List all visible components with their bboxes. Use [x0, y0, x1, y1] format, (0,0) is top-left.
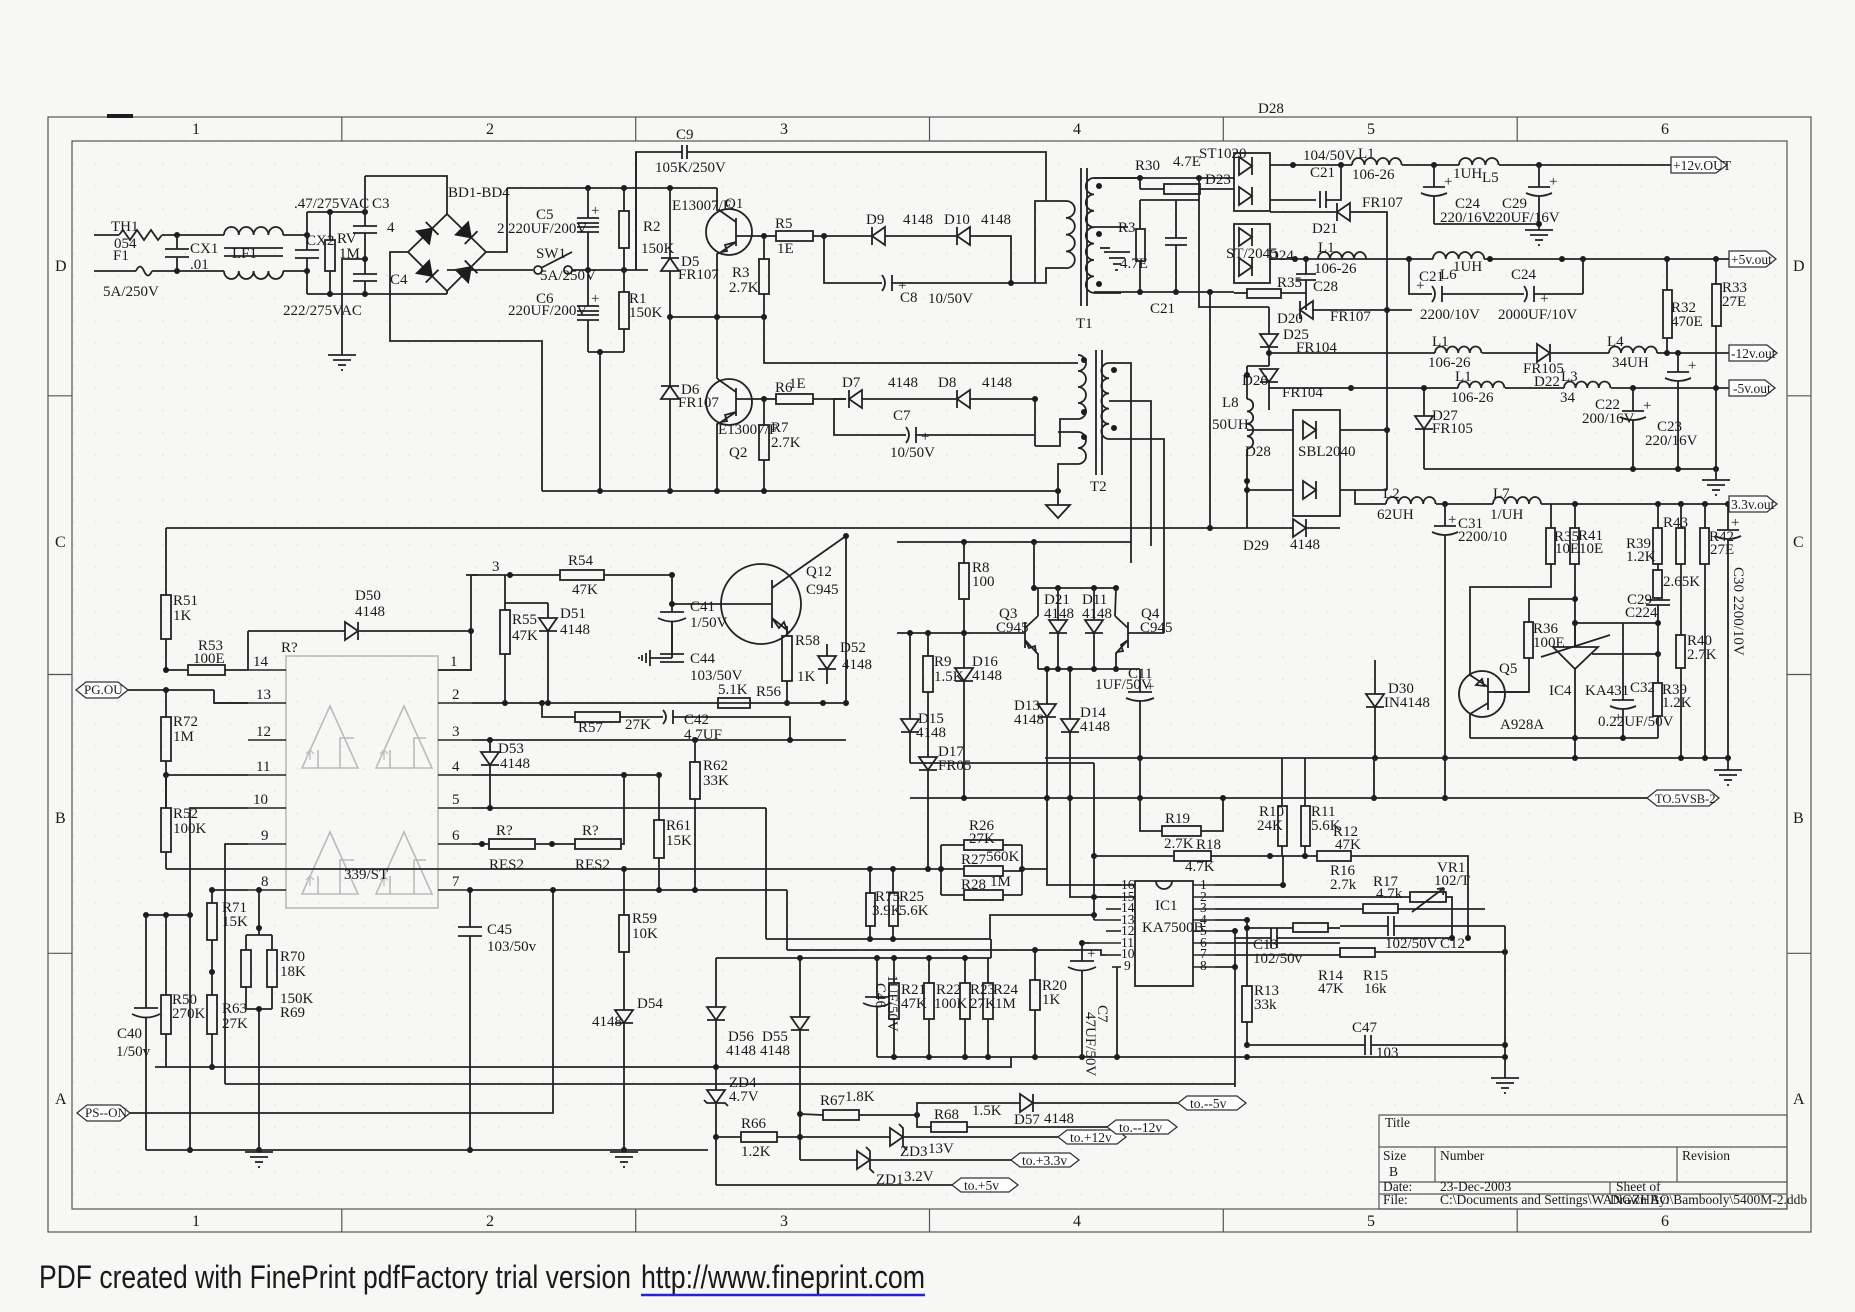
T2 secondary — [1101, 363, 1109, 439]
R8 top link — [963, 542, 965, 546]
svg-text:102/50V: 102/50V — [1385, 936, 1438, 952]
resistor R32 470E — [1663, 290, 1672, 338]
svg-text:R72: R72 — [173, 714, 198, 730]
resistor R39b 1.2K — [1653, 683, 1662, 716]
svg-text:C4: C4 — [390, 272, 408, 288]
svg-text:IC4: IC4 — [1549, 683, 1572, 699]
diode D10 4148 — [957, 227, 970, 245]
svg-text:R68: R68 — [934, 1107, 959, 1123]
capacitor C6 — [587, 270, 589, 306]
svg-text:-5v.out: -5v.out — [1733, 381, 1771, 396]
svg-text:105K/250V: 105K/250V — [655, 160, 726, 176]
R20 1K — [1030, 980, 1040, 1010]
svg-text:FR107: FR107 — [678, 395, 719, 411]
R22 100K — [924, 983, 934, 1019]
resistor R8 100 — [959, 563, 969, 599]
svg-text:1K: 1K — [173, 608, 192, 624]
resistor R54 47K — [478, 574, 560, 576]
transformer T1 primary — [1035, 201, 1066, 283]
svg-text:C: C — [55, 534, 66, 551]
opamp B — [376, 706, 432, 768]
resistor R7 — [759, 425, 769, 460]
svg-text:Q12: Q12 — [806, 564, 832, 580]
capacitor C31 2200/10 — [1444, 504, 1446, 526]
diode D55 4148 — [799, 958, 801, 1017]
svg-text:1: 1 — [192, 121, 200, 138]
wire live in — [94, 234, 119, 236]
svg-text:222/275VAC: 222/275VAC — [283, 303, 362, 319]
R11 5.6K — [1301, 806, 1310, 846]
svg-text:1/50V: 1/50V — [690, 615, 728, 631]
svg-text:L5: L5 — [1482, 170, 1499, 186]
primary ground triangle — [1046, 491, 1070, 518]
3.3 bottom line — [1045, 757, 1728, 759]
top bus 958 — [716, 957, 991, 959]
resistor R62 33K — [690, 762, 700, 799]
svg-text:47K: 47K — [1335, 837, 1361, 853]
vertical 1199 to D25 — [1199, 178, 1269, 307]
zener ZD3 13V — [890, 1124, 907, 1150]
svg-text:L8: L8 — [1222, 395, 1239, 411]
svg-text:R3: R3 — [732, 265, 750, 281]
svg-text:L3: L3 — [1561, 369, 1578, 385]
capacitor C40 1/50v — [145, 915, 147, 1008]
svg-text:2000UF/10V: 2000UF/10V — [1498, 307, 1577, 323]
svg-text:IN4148: IN4148 — [1384, 695, 1430, 711]
svg-text:to.+12v: to.+12v — [1070, 1130, 1112, 1145]
column numbers top — [55, 121, 1805, 1230]
svg-text:7: 7 — [452, 874, 460, 890]
svg-text:15K: 15K — [222, 914, 248, 930]
bus to T2 aux — [166, 527, 1247, 529]
svg-text:C3: C3 — [372, 196, 390, 212]
ground R69 — [245, 1152, 273, 1167]
svg-text:2: 2 — [497, 221, 505, 237]
bottom node — [588, 351, 624, 353]
resistor R5 — [761, 233, 767, 239]
svg-text:10/50V: 10/50V — [890, 445, 935, 461]
capacitor C42 4.7UF — [663, 710, 666, 724]
svg-text:106-26: 106-26 — [1314, 261, 1357, 277]
svg-text:100: 100 — [972, 574, 995, 590]
R67 1.8K — [823, 1110, 859, 1120]
pin3 wire — [1215, 908, 1363, 910]
svg-text:.01: .01 — [190, 257, 209, 273]
svg-text:10/50V: 10/50V — [928, 291, 973, 307]
pin3 row — [472, 739, 846, 741]
svg-text:B: B — [55, 810, 66, 827]
svg-text:LF1: LF1 — [232, 246, 257, 262]
bus 1084 — [225, 1083, 1235, 1085]
svg-text:2.7K: 2.7K — [729, 280, 759, 296]
svg-text:200/16V: 200/16V — [1582, 411, 1635, 427]
svg-text:D21: D21 — [1312, 221, 1338, 237]
svg-text:R55: R55 — [512, 612, 537, 628]
svg-text:11: 11 — [256, 759, 270, 775]
svg-text:A928A: A928A — [1500, 717, 1544, 733]
capacitor C24b 2000UF/10V — [1524, 286, 1527, 302]
capacitor C30 2200/10V — [1727, 504, 1729, 530]
svg-text:SBL2040: SBL2040 — [1298, 444, 1356, 460]
Q12 collector top rail — [845, 536, 847, 703]
svg-text:2: 2 — [452, 687, 460, 703]
svg-text:220UF/200V: 220UF/200V — [508, 221, 587, 237]
svg-text:C21: C21 — [1310, 165, 1335, 181]
svg-text:T1: T1 — [1076, 316, 1093, 332]
wire pin7col — [467, 887, 473, 893]
svg-text:L1: L1 — [1432, 334, 1449, 350]
svg-text:Drawn By:: Drawn By: — [1610, 1192, 1670, 1207]
svg-text:4: 4 — [387, 220, 395, 236]
svg-text:4148: 4148 — [1014, 712, 1044, 728]
svg-text:+: + — [1448, 512, 1456, 528]
svg-text:CX1: CX1 — [190, 241, 218, 257]
svg-text:R62: R62 — [703, 758, 728, 774]
svg-text:R30: R30 — [1135, 158, 1160, 174]
svg-text:270K: 270K — [172, 1006, 206, 1022]
opamp C — [302, 832, 358, 894]
svg-text:4.7k: 4.7k — [1376, 886, 1403, 902]
pin stubs right 1..8 — [1193, 885, 1215, 967]
svg-text:File:: File: — [1383, 1192, 1408, 1207]
svg-text:1K: 1K — [1042, 992, 1061, 1008]
svg-text:4148: 4148 — [355, 604, 385, 620]
R26/27/28 side rails — [941, 845, 964, 895]
pin11 row to column — [165, 775, 167, 808]
svg-text:470E: 470E — [1671, 314, 1703, 330]
svg-text:R5: R5 — [775, 216, 793, 232]
svg-text:2.7k: 2.7k — [1330, 877, 1357, 893]
svg-text:C21: C21 — [1150, 301, 1175, 317]
Q5 collector line — [1470, 737, 1658, 739]
capacitor C24a — [1433, 165, 1435, 187]
diode D11 4148 — [1093, 588, 1095, 620]
svg-text:6: 6 — [452, 828, 460, 844]
pin4 row — [472, 774, 624, 776]
svg-text:4148: 4148 — [972, 668, 1002, 684]
pin stubs right 1..7 — [438, 670, 472, 890]
transistor Q2 E13007/F — [706, 379, 752, 425]
bus 1067 — [155, 1057, 1011, 1067]
pin11 bus — [1082, 942, 1090, 944]
svg-text:104/50V: 104/50V — [1303, 148, 1356, 164]
svg-text:C28: C28 — [1313, 279, 1338, 295]
svg-text:13V: 13V — [928, 1141, 954, 1157]
svg-text:27K: 27K — [625, 717, 651, 733]
svg-text:F1: F1 — [113, 248, 129, 264]
svg-text:Title: Title — [1385, 1115, 1410, 1130]
svg-text:ST1020: ST1020 — [1199, 146, 1247, 162]
faint grid dots — [0, 0, 1, 1]
column R42 27E — [1704, 504, 1706, 528]
svg-text:C45: C45 — [487, 922, 512, 938]
diode D53 4148 — [489, 740, 491, 752]
small ground C44 — [639, 650, 650, 666]
svg-text:150K: 150K — [629, 305, 663, 321]
R13 33k — [1242, 986, 1252, 1022]
svg-text:+: + — [591, 291, 599, 307]
transistor Q1 E13007/F — [706, 209, 752, 255]
ground under C29 — [1525, 230, 1553, 245]
T2 core — [1095, 350, 1097, 475]
svg-text:1UF/50V: 1UF/50V — [1095, 677, 1152, 693]
svg-text:D7: D7 — [842, 375, 861, 391]
svg-text:C47: C47 — [1352, 1020, 1378, 1036]
svg-text:3.3v.out: 3.3v.out — [1731, 497, 1775, 512]
svg-text:D29: D29 — [1243, 538, 1269, 554]
svg-text:9: 9 — [261, 828, 269, 844]
inductor L8 50UH — [1246, 366, 1248, 399]
svg-text:27E: 27E — [1710, 542, 1734, 558]
svg-text:L2: L2 — [1383, 486, 1400, 502]
primary bottom bus — [542, 490, 1058, 492]
pin5 row — [472, 807, 766, 809]
capacitor C8 — [824, 236, 882, 283]
svg-text:+: + — [1444, 174, 1452, 190]
resistor R56 5.1K — [718, 698, 750, 708]
pin8 row left — [212, 889, 248, 891]
R23 27K — [960, 983, 970, 1019]
capacitor C7p — [834, 399, 906, 435]
svg-text:4148: 4148 — [982, 375, 1012, 391]
inductor LF1 top — [224, 227, 283, 235]
svg-text:1.2K: 1.2K — [1626, 549, 1656, 565]
svg-text:103: 103 — [1376, 1045, 1399, 1061]
svg-text:1E: 1E — [789, 376, 806, 392]
bridge bottom to SW rail — [446, 291, 448, 294]
svg-text:102/50v: 102/50v — [1253, 951, 1303, 967]
pin stubs left 16..9 — [1090, 885, 1121, 967]
svg-text:106-26: 106-26 — [1352, 167, 1395, 183]
capacitor C26 2200/10V — [1409, 259, 1432, 294]
svg-text:C32: C32 — [1630, 680, 1655, 696]
svg-text:FR05: FR05 — [938, 758, 971, 774]
LF1 core — [224, 247, 283, 249]
pin stubs left 14..8 — [248, 670, 286, 890]
svg-text:D28: D28 — [1245, 444, 1271, 460]
wire — [152, 270, 224, 272]
svg-text:E13007/F: E13007/F — [672, 198, 731, 214]
resistor R30 4.7E — [1139, 178, 1141, 189]
R68 1.5K — [917, 1115, 931, 1127]
svg-text:+12v.OUT: +12v.OUT — [1673, 158, 1732, 173]
svg-text:1.8K: 1.8K — [845, 1089, 875, 1105]
+12 rail — [1270, 164, 1352, 166]
resistor R61 15K — [654, 820, 664, 858]
+5 rail — [1270, 258, 1433, 260]
svg-text:FR105: FR105 — [1432, 421, 1473, 437]
svg-text:D: D — [1793, 258, 1805, 275]
svg-text:2: 2 — [486, 1213, 494, 1230]
pin6/7 wires + R15 + C12 — [1215, 942, 1340, 944]
diode D13 4148 — [1046, 669, 1048, 704]
svg-text:D57: D57 — [1014, 1112, 1040, 1128]
pin2 wire + R17 — [1215, 896, 1410, 898]
svg-text:BD1-BD4: BD1-BD4 — [448, 185, 510, 201]
bus PS-ON — [77, 1105, 130, 1121]
svg-text:C24: C24 — [1511, 267, 1537, 283]
C7 47UF/50V — [1081, 943, 1083, 961]
pin1 wire — [1215, 884, 1283, 886]
svg-text:Revision: Revision — [1682, 1148, 1730, 1163]
svg-text:D22: D22 — [1534, 374, 1560, 390]
diode D21b 4148 — [1057, 588, 1059, 620]
svg-text:4148: 4148 — [592, 1014, 622, 1030]
resistor R53 100E — [188, 665, 225, 675]
svg-text:+: + — [1416, 278, 1424, 294]
capacitor C23 — [1677, 353, 1679, 372]
column R43/2.65K/C224 — [1657, 504, 1659, 528]
svg-text:4148: 4148 — [1044, 1111, 1074, 1127]
pin10 row left — [190, 808, 248, 915]
svg-text:+5v.out: +5v.out — [1731, 252, 1772, 267]
wire Q12 base — [672, 603, 721, 605]
svg-text:C7: C7 — [893, 408, 911, 424]
svg-text:to.--5v: to.--5v — [1190, 1096, 1227, 1111]
net to.--5v — [1178, 1096, 1246, 1110]
T1 secondary leads — [1094, 177, 1141, 179]
pin13 row left — [214, 702, 248, 704]
ground rail bottom — [146, 1149, 708, 1151]
svg-text:13: 13 — [256, 687, 271, 703]
svg-text:R67: R67 — [820, 1093, 846, 1109]
net -5v.out — [1729, 380, 1775, 396]
svg-text:Q1: Q1 — [725, 196, 743, 212]
wire SBL leads — [1247, 429, 1293, 431]
capacitor C9 — [636, 152, 682, 270]
capacitor C32 0.22UF/50V — [1622, 623, 1624, 700]
diode D6 FR107 — [661, 386, 679, 399]
net -12v.out — [1729, 345, 1777, 361]
R16 2.7k — [1317, 851, 1351, 861]
resistor R33 27E — [1712, 284, 1721, 326]
svg-text:5: 5 — [1367, 121, 1375, 138]
svg-text:220/16V: 220/16V — [1645, 433, 1698, 449]
svg-text:3.2V: 3.2V — [904, 1169, 934, 1185]
capacitor C29/C224 — [1646, 599, 1670, 601]
resistor R36 100E — [1524, 622, 1533, 658]
svg-text:47K: 47K — [901, 996, 927, 1012]
diode D56 4148 — [715, 958, 717, 1007]
svg-text:100K: 100K — [934, 996, 968, 1012]
resistor R51 1K — [161, 595, 171, 639]
svg-text:1M: 1M — [990, 874, 1011, 890]
T1 core — [1080, 168, 1082, 306]
bus to IC pins — [910, 762, 1094, 764]
svg-text:A: A — [55, 1091, 67, 1108]
inductor L7 1/UH — [1493, 497, 1541, 504]
resistor R34 4.7E — [1139, 200, 1141, 229]
svg-text:D9: D9 — [866, 212, 884, 228]
R10 24K — [1278, 806, 1287, 846]
capacitor C21a — [1175, 200, 1177, 238]
resistor R73 3.9K — [866, 893, 875, 926]
bottom join line — [1424, 468, 1716, 470]
capacitor C3 — [364, 176, 366, 226]
svg-text:6: 6 — [1661, 1213, 1669, 1230]
svg-text:C44: C44 — [690, 651, 716, 667]
svg-text:C41: C41 — [690, 599, 715, 615]
svg-text:9: 9 — [1124, 958, 1131, 973]
svg-text:R28: R28 — [961, 877, 986, 893]
node CX2 rail — [304, 232, 310, 238]
resistor R50 270K — [161, 995, 171, 1034]
wire T1 lead to D25 column — [1268, 307, 1270, 334]
svg-text:4148: 4148 — [560, 622, 590, 638]
svg-text:33K: 33K — [703, 773, 729, 789]
resistor R1 — [619, 292, 629, 329]
inductor L3 34 — [1564, 382, 1610, 388]
svg-text:B: B — [1793, 810, 1804, 827]
svg-text:PDF created with FinePrint pdf: PDF created with FinePrint pdfFactory tr… — [39, 1259, 631, 1295]
svg-text:D: D — [55, 258, 67, 275]
svg-text:D53: D53 — [498, 741, 524, 757]
D57 4148 — [917, 1103, 1020, 1115]
svg-text:4148: 4148 — [916, 725, 946, 741]
R18 4.7K line — [1094, 855, 1174, 857]
svg-text:4.7V: 4.7V — [729, 1089, 759, 1105]
svg-text:2.7K: 2.7K — [1687, 647, 1717, 663]
svg-text:R54: R54 — [568, 553, 594, 569]
svg-text:33k: 33k — [1254, 997, 1277, 1013]
IC1 box — [1135, 881, 1193, 986]
inductor L1b 106-26 — [1318, 252, 1366, 259]
shunt ref IC4 KA431 — [1553, 647, 1598, 669]
svg-text:T2: T2 — [1090, 479, 1107, 495]
diode D9 4148 — [872, 227, 885, 245]
svg-text:1/50v: 1/50v — [116, 1044, 151, 1060]
right vertical to ground — [1504, 926, 1506, 1078]
ground 3.3 — [1714, 770, 1742, 785]
bottom rail — [307, 293, 447, 295]
wire y200 — [1140, 199, 1199, 201]
svg-text:TO.5VSB-2: TO.5VSB-2 — [1655, 792, 1716, 806]
svg-text:1: 1 — [450, 654, 458, 670]
R24 1M — [983, 983, 993, 1019]
svg-text:+: + — [1146, 679, 1154, 695]
diode D50 4148 — [247, 631, 249, 670]
wire — [283, 234, 307, 236]
svg-text:2: 2 — [486, 121, 494, 138]
resistor R35 — [1247, 289, 1281, 298]
resistors R70 18K / 150K R69 — [246, 928, 272, 950]
svg-text:PS--ON: PS--ON — [85, 1105, 128, 1120]
svg-text:5.6K: 5.6K — [899, 903, 929, 919]
svg-text:62UH: 62UH — [1377, 507, 1414, 523]
svg-text:C8: C8 — [900, 290, 918, 306]
svg-text:1UH: 1UH — [1453, 259, 1482, 275]
svg-text:R58: R58 — [795, 633, 820, 649]
ground D54 — [610, 1152, 638, 1167]
svg-text:560K: 560K — [986, 849, 1020, 865]
svg-text:3: 3 — [452, 724, 460, 740]
svg-text:RES2: RES2 — [489, 857, 524, 873]
inductor L2 62UH — [1386, 497, 1436, 504]
svg-text:C945: C945 — [996, 620, 1029, 636]
capacitor C11 1UF/50V — [1139, 669, 1141, 692]
inductor LF1 bottom — [224, 271, 283, 279]
svg-text:47K: 47K — [512, 628, 538, 644]
svg-text:1M: 1M — [173, 729, 194, 745]
resistor R6 — [761, 396, 767, 402]
svg-text:D52: D52 — [840, 640, 866, 656]
svg-text:R9: R9 — [934, 654, 952, 670]
svg-text:C9: C9 — [676, 127, 694, 143]
svg-text:http://www.fineprint.com: http://www.fineprint.com — [641, 1259, 925, 1295]
capacitor CX2 — [306, 212, 308, 250]
inductor L6 — [1433, 252, 1484, 259]
svg-text:D54: D54 — [637, 996, 663, 1012]
